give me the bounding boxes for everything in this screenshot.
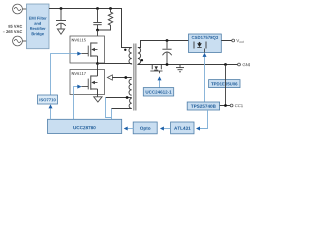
wire secondary top to Vout rail xyxy=(138,41,189,48)
wire clamp to NV6115 drain xyxy=(97,30,99,43)
node GND rail CC drop xyxy=(224,63,227,66)
node clamp bottom xyxy=(96,29,99,32)
transistor Q1 inside NV6115 xyxy=(81,42,97,63)
GaN FET NV6115 box xyxy=(70,36,105,63)
wire aux mid tap xyxy=(106,97,132,99)
terminal Vout xyxy=(232,39,235,42)
IC TPD1E05U06 box xyxy=(209,80,240,88)
transformer T1 primary winding xyxy=(129,48,132,65)
node aux top xyxy=(124,76,127,79)
capacitor clamp xyxy=(93,9,101,31)
node bulk cap top xyxy=(60,7,63,10)
wire aux bottom lead xyxy=(112,108,132,110)
wire AC1 to EMI xyxy=(22,8,26,10)
wire TPS to CC1 terminal xyxy=(220,105,231,107)
transistor inside CSD17578Q3 xyxy=(194,42,206,53)
transformer T1 aux winding lower xyxy=(129,98,132,108)
node switch node xyxy=(96,62,99,65)
node secondary polarity dot xyxy=(141,59,143,61)
wire AC2 to EMI xyxy=(22,40,26,42)
node clamp cap top xyxy=(96,7,99,10)
terminal GND xyxy=(238,63,241,66)
wire DC bus rail xyxy=(49,9,132,48)
node primary polarity dot xyxy=(124,49,126,51)
wire gate PWML blue xyxy=(74,87,78,120)
label 265 VAC xyxy=(3,30,22,33)
transformer T1 core xyxy=(133,44,135,111)
transistor Q2 inside NV6117 xyxy=(81,64,97,97)
SWS sense open arrow xyxy=(107,75,112,80)
label 85 VAC xyxy=(8,25,22,28)
node clamp res top xyxy=(109,7,112,10)
transformer T1 secondary winding xyxy=(138,48,141,65)
IC CSD17578Q3 box xyxy=(189,34,222,53)
wire SR gate blue xyxy=(159,80,161,87)
ground primary under NV6117 xyxy=(94,97,102,102)
wire switch node to primary xyxy=(98,63,132,65)
IC TPS25740B box xyxy=(187,102,219,110)
transistor SR FET xyxy=(150,65,162,74)
AC source V2 xyxy=(13,36,23,46)
IC ATL431 box xyxy=(171,122,194,134)
IC UCC28780 box xyxy=(48,119,122,133)
node CC junction xyxy=(224,104,227,107)
wire SWS to aux top xyxy=(112,77,131,79)
wire gate PWMH blue xyxy=(51,54,78,95)
wire aux mid to UCC28780 blue xyxy=(106,98,112,118)
wire ATL431 to Opto blue xyxy=(164,128,171,130)
capacitor bulk xyxy=(56,9,66,30)
wire TPS to ATL431 blue xyxy=(200,110,208,129)
EMI Filter and Rectifier Bridge block xyxy=(27,4,50,49)
transformer T1 aux winding upper xyxy=(129,79,132,95)
node aux mid xyxy=(126,96,129,99)
terminal CC1 xyxy=(230,104,233,107)
ground secondary earth bars xyxy=(176,65,184,72)
wire Opto to UCC28780 blue xyxy=(127,128,133,130)
capacitor output xyxy=(162,41,171,65)
node output cap bottom xyxy=(166,63,169,66)
wire CSD gate blue xyxy=(204,57,206,102)
IC Opto box xyxy=(133,122,157,134)
GaN FET NV6117 box xyxy=(70,70,105,95)
IC UCC24612 box xyxy=(143,88,173,96)
node output cap top xyxy=(166,39,169,42)
IC ISO7710 box xyxy=(38,95,58,104)
wire secondary GND rail xyxy=(138,63,238,66)
ground primary triangle under bulk cap xyxy=(57,29,64,34)
wire to Vout terminal xyxy=(221,40,232,42)
wire CC line vertical xyxy=(225,65,227,106)
wire UCC28780 to ISO7710 blue xyxy=(50,108,52,119)
resistor clamp xyxy=(98,9,113,31)
AC source V1 xyxy=(13,4,23,14)
